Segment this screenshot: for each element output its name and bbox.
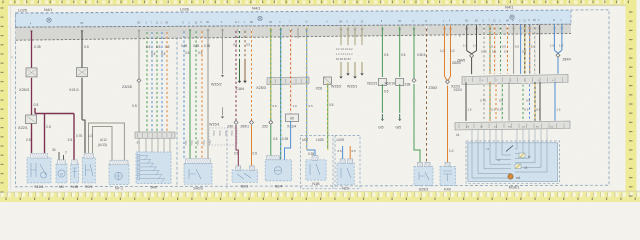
actuator M16/1 dashed box <box>466 141 560 183</box>
blue-yellow wire to N1B <box>306 28 308 150</box>
bus bar gray band <box>16 24 572 40</box>
stub at 298 <box>297 28 299 39</box>
wire green to X62/19 and ground <box>399 27 401 77</box>
wires through mid bar <box>270 28 272 120</box>
page margin line <box>10 5 12 190</box>
khaki W15 quad wires <box>340 27 342 45</box>
S6/1 feeder maroon via node Z40 <box>235 29 237 121</box>
CAN arrows <box>239 29 241 59</box>
wire blue/white x152 to S40 <box>151 30 153 132</box>
X-connector bar 1 <box>462 75 568 85</box>
wire dark x466 X-bar1 to X-bar2 <box>465 82 467 121</box>
wire yellow/dark x535 X-bar1 to X-bar2 <box>534 82 536 121</box>
wire dark x539.6 bus to X-bar1 <box>539 25 541 74</box>
wire yellow/dark x524.8 bus to X-bar1 <box>524 25 526 74</box>
outer dashed schematic frame <box>16 10 610 187</box>
S40 connector bar <box>135 132 175 138</box>
yellow frame left edge <box>0 0 8 202</box>
actuator M16/1 body <box>468 143 558 182</box>
W15/1 loop pair <box>355 62 362 76</box>
node Z84/3 orange pair to K40 <box>444 26 446 76</box>
component S40/3 <box>184 163 212 184</box>
ground arrow GI5 a <box>381 114 383 119</box>
connector X26 <box>324 77 332 84</box>
yellow frame bottom strip <box>0 192 640 202</box>
maroon horizontal branch <box>35 113 74 115</box>
wire orange/white x507.5 bus to X-bar1 <box>507 25 509 74</box>
component S29/3 <box>414 167 433 186</box>
maroon X22/1 to S16/1 <box>31 123 33 153</box>
sub-box L029 <box>335 135 360 188</box>
wire brown dashed node Z39/2 to S29/3 <box>426 26 428 162</box>
wire gray x513.6 bus to X-bar1 <box>513 25 515 74</box>
compartment divider x177 <box>176 12 178 187</box>
wire green to X62/21 and ground <box>381 27 383 77</box>
maroon branch down to N4B <box>73 114 75 165</box>
wire below fuse <box>285 121 291 160</box>
S40 keypad box <box>136 152 171 183</box>
wires into N22 <box>342 146 344 159</box>
resistor r1 <box>519 153 525 158</box>
wire blue/white x184 to S40/3 <box>183 29 185 159</box>
W15/2 loop pair <box>341 62 348 76</box>
wire blue/white x529.5 X-bar1 to X-bar2 <box>529 82 531 121</box>
S40/3 colour codes <box>184 140 211 146</box>
X-connector bar 2 <box>455 121 570 130</box>
wire gray x509 X-bar1 to X-bar2 <box>508 82 510 121</box>
pin number specks above bus bar <box>30 20 562 25</box>
component K40 <box>440 167 456 186</box>
ground arrow GI5 b <box>399 114 401 119</box>
wire dark x540 X-bar1 to X-bar2 <box>539 82 541 121</box>
maroon branch to S16/1 right pin <box>44 114 46 154</box>
wire blue/white x162 to S40 <box>161 30 163 132</box>
S9/1 innards <box>86 164 94 176</box>
plug symbol mid <box>258 16 262 20</box>
resistor r2 <box>515 164 521 169</box>
N7-1 innards <box>115 172 123 180</box>
component N4B <box>71 164 79 183</box>
plug symbol left <box>47 18 51 22</box>
yellow frame top edge <box>0 0 640 5</box>
wire black bus to X21/1 <box>81 30 83 68</box>
switch contact <box>506 146 513 152</box>
wire blue x555 X-bar1 to X-bar2 <box>554 82 556 121</box>
drops from bar into S40 <box>139 138 170 152</box>
wire below Z3/28 to S40 bar <box>138 83 140 132</box>
inner page lighter area <box>8 5 631 190</box>
wire gray/white x484 X-bar1 to X-bar2 <box>483 82 485 121</box>
component N22 <box>337 163 354 185</box>
W15 pin text rows <box>336 47 353 61</box>
connector X22/1 <box>26 115 37 124</box>
node Z84/4 blue pair <box>553 25 555 51</box>
wire green/white x196 to S40/3 <box>195 29 197 159</box>
wire gray/white x484 bus to X-bar1 <box>483 25 485 74</box>
wire green/white x147 to S40 <box>146 30 148 132</box>
wire green node Z38 to S29/3 <box>413 27 415 79</box>
component S6/1 <box>232 170 258 182</box>
wire green/orange x490 bus to X-bar1 <box>489 25 491 74</box>
node Z3/28 <box>138 30 140 79</box>
wire gray x208 to S40/3 <box>207 29 209 159</box>
wire maroon X25/3 to X22/1 <box>31 78 33 115</box>
control unit N4/1 blue strip <box>16 10 572 27</box>
plug symbol right <box>510 15 514 19</box>
wire black X21/1 down to S9/1 <box>81 78 83 120</box>
sub-box U07 <box>301 135 334 188</box>
wire green/white x502.3 X-bar1 to X-bar2 <box>501 82 503 121</box>
wire orange/white x167 to S40 <box>166 30 168 132</box>
wire W15/1 stub <box>222 107 224 115</box>
component N7-1 <box>109 164 129 184</box>
fuse box FA5 <box>286 114 299 122</box>
wire gray/white x534.7 bus to X-bar1 <box>534 25 536 74</box>
wire green/white x523 X-bar1 to X-bar2 <box>522 82 524 121</box>
sub-box divider x227 <box>226 130 228 188</box>
wire maroon bus to X25/3 <box>31 30 33 68</box>
component N2/4 <box>265 160 291 181</box>
gray loop S9/1 N7 outer <box>89 123 125 164</box>
wire green x190 to S40/3 <box>189 29 191 159</box>
wire green/white x500.5 bus to X-bar1 <box>500 25 502 74</box>
component S9/1 <box>82 158 95 183</box>
gray loop S9/1 N7 inner <box>93 127 113 165</box>
S16/1 innards <box>31 163 47 178</box>
green-yellow wire below X26 <box>327 83 329 149</box>
wire orange/white x496 X-bar1 to X-bar2 <box>495 82 497 121</box>
component S16/1 <box>27 158 51 183</box>
wire green/white x157 to S40 <box>156 30 158 132</box>
wire green/orange x490 X-bar1 to X-bar2 <box>489 82 491 121</box>
W15 colour codes <box>209 128 237 145</box>
M1 stubs <box>58 152 60 164</box>
M1 innards <box>58 170 65 177</box>
N4B innards <box>73 168 78 178</box>
component N1B <box>306 160 326 180</box>
wire orange/blue x529.7 bus to X-bar1 <box>529 25 531 74</box>
M16/1 internal wiring loops <box>472 130 547 179</box>
component M1 <box>56 164 67 183</box>
connector X21/1 <box>77 68 88 77</box>
S6/1 feeder orange via node Z99/1 <box>251 29 253 121</box>
wire orange/white x494.6 bus to X-bar1 <box>494 25 496 74</box>
wire W15/2 stub <box>222 29 224 74</box>
bus bar pin marks <box>30 27 563 32</box>
yellow frame right edge <box>626 0 637 202</box>
wire blue x520.6 bus to X-bar1 <box>520 25 522 74</box>
motor m1 <box>508 174 513 179</box>
wire orange/white x202 to S40/3 <box>201 29 203 159</box>
connector X25/3 <box>26 68 37 77</box>
